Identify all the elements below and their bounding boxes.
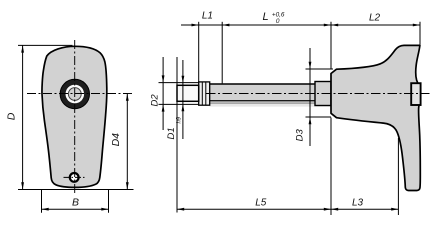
svg-text:D3: D3 xyxy=(294,129,305,142)
svg-text:L2: L2 xyxy=(369,12,381,23)
svg-text:0: 0 xyxy=(276,18,280,25)
svg-text:L5: L5 xyxy=(255,198,267,209)
svg-text:L: L xyxy=(262,11,268,23)
svg-text:D2: D2 xyxy=(150,94,161,107)
svg-text:D1: D1 xyxy=(166,127,177,139)
svg-text:B: B xyxy=(72,197,79,209)
svg-text:h9: h9 xyxy=(177,116,183,123)
svg-text:D: D xyxy=(6,112,18,120)
svg-text:D4: D4 xyxy=(110,133,122,147)
svg-text:L3: L3 xyxy=(352,198,364,209)
svg-text:L1: L1 xyxy=(202,11,213,22)
